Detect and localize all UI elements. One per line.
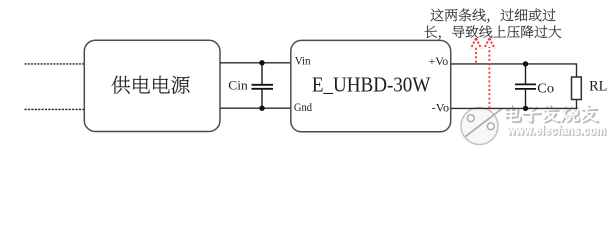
svg-text:Gnd: Gnd	[294, 102, 312, 114]
svg-text:www.elecfans.com: www.elecfans.com	[506, 122, 606, 137]
converter module U1 E_UHBD-30W	[291, 40, 451, 131]
resistor RL	[572, 64, 582, 109]
watermark logo circle	[461, 108, 502, 145]
node Co top	[523, 61, 528, 66]
capacitor Cin	[252, 63, 274, 108]
watermark brand text 电子发烧友	[504, 104, 599, 123]
wire Gnd bottom	[220, 107, 291, 109]
red arrow 2 (from -Vo wire)	[484, 38, 494, 108]
annotation text line 2	[425, 25, 562, 39]
red arrow 1 (from +Vo wire)	[471, 38, 481, 62]
svg-text:Vin: Vin	[295, 56, 311, 68]
annotation text line 1	[431, 8, 556, 22]
svg-text:+Vo: +Vo	[429, 56, 449, 68]
watermark url www.elecfans.com	[506, 122, 607, 138]
wire -Vo bottom right	[451, 107, 578, 109]
svg-text:-Vo: -Vo	[432, 103, 450, 115]
node Co bottom	[523, 106, 528, 111]
node Cin bottom	[259, 106, 264, 111]
power supply box 供电电源	[84, 40, 220, 131]
svg-text:E_UHBD-30W: E_UHBD-30W	[312, 73, 431, 97]
capacitor Co	[515, 64, 536, 109]
svg-text:Co: Co	[537, 81, 554, 96]
node Cin top	[259, 60, 264, 65]
wire +Vo top right	[451, 63, 578, 65]
svg-text:RL: RL	[589, 79, 607, 95]
dashed input line bottom	[25, 108, 85, 110]
dashed input line top	[25, 63, 85, 65]
svg-text:Cin: Cin	[228, 78, 248, 92]
wire Vin top	[220, 62, 291, 64]
